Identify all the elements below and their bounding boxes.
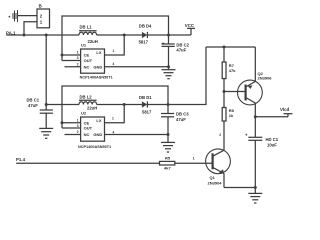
wire feedback U2: OUT/CE up and over to VCC2 node	[62, 86, 168, 128]
wire VCC node to VCC symbol	[169, 34, 192, 36]
svg-text:U1: U1	[81, 42, 87, 47]
svg-text:3: 3	[77, 56, 79, 60]
svg-text:4: 4	[113, 130, 115, 134]
svg-text:4: 4	[113, 62, 115, 66]
battery BT1	[8, 10, 18, 22]
diode DB D1	[139, 95, 152, 115]
svg-text:2: 2	[219, 133, 221, 137]
svg-text:DB D1: DB D1	[139, 95, 152, 100]
resistor R8	[222, 92, 234, 151]
wire CE pin stub U1	[62, 54, 81, 56]
capacitor DB C1	[27, 97, 53, 128]
junction input node second converter	[45, 103, 48, 106]
junction Vlcd output node	[254, 115, 257, 118]
svg-text:47uF: 47uF	[176, 117, 186, 122]
svg-text:1: 1	[77, 51, 79, 55]
junction VCC2 output node	[167, 103, 170, 106]
wire connector pin1 down to PA.1 rail	[24, 22, 37, 35]
svg-text:2N3904: 2N3904	[208, 180, 223, 185]
svg-text:DB C2: DB C2	[176, 42, 189, 47]
svg-text:3: 3	[77, 124, 79, 128]
svg-text:DB L2: DB L2	[80, 95, 93, 100]
supply symbol VCC	[185, 23, 195, 35]
junction ground node 2	[167, 133, 170, 136]
svg-text:47uF: 47uF	[176, 48, 186, 53]
svg-text:+: +	[245, 132, 248, 137]
wire output node to Vlcd terminal	[255, 116, 288, 118]
junction LX2 branch	[123, 103, 126, 106]
junction VCC output node	[167, 34, 170, 37]
svg-text:OUT: OUT	[84, 58, 93, 63]
wire node A to Q2 base	[224, 91, 245, 93]
wire rail down to second converter input	[45, 35, 47, 105]
junction LX1 branch	[123, 34, 126, 37]
wire inductor L2 to diode D1	[97, 104, 142, 106]
wire inductor L1 to diode D4	[97, 34, 142, 36]
svg-text:1k: 1k	[229, 113, 234, 118]
svg-text:47k: 47k	[229, 68, 236, 73]
svg-text:NCP1400ASN50T1: NCP1400ASN50T1	[80, 75, 113, 79]
ground C1	[39, 128, 53, 138]
svg-text:HD C1: HD C1	[266, 137, 279, 142]
wire R5 to Q1 base	[175, 162, 213, 164]
svg-text:R5: R5	[165, 155, 171, 160]
wire battery to connector pin 2	[18, 15, 38, 17]
wire OUT pin stub U1	[62, 60, 81, 62]
wire NC pin stub U2	[65, 134, 81, 136]
svg-text:1: 1	[77, 118, 79, 122]
junction CE U2	[61, 121, 64, 124]
junction C1 branch on rail	[45, 34, 48, 37]
svg-text:CE: CE	[84, 120, 90, 125]
transistor Q1 (NPN 2N3904)	[206, 149, 231, 188]
wire P1.4 to R5	[16, 162, 159, 164]
diode DB D4	[139, 23, 152, 44]
wire GND1 pin to ground	[105, 66, 169, 68]
svg-text:DB C3: DB C3	[176, 112, 189, 117]
svg-text:LX: LX	[96, 118, 101, 123]
svg-text:22uH: 22uH	[88, 39, 98, 44]
op-amp U1 (NCP1400A boost regulator)	[77, 42, 113, 79]
ground 2	[161, 135, 175, 153]
svg-text:22uH: 22uH	[87, 106, 97, 111]
svg-text:Vlcd: Vlcd	[280, 107, 290, 112]
wire LX2 pin to switch node	[105, 105, 125, 123]
svg-text:5817: 5817	[142, 110, 152, 115]
ground 4	[248, 188, 262, 204]
capacitor DB C2	[162, 35, 190, 67]
svg-text:VCC: VCC	[185, 23, 195, 28]
capacitor DB C3	[161, 105, 189, 135]
inductor DB L1	[79, 25, 98, 44]
wire diode D1 to VCC2 node	[147, 104, 168, 106]
junction ground node 1	[167, 65, 170, 68]
capacitor HD C1	[245, 117, 279, 188]
svg-text:1: 1	[113, 49, 115, 53]
svg-text:2: 2	[77, 130, 79, 134]
wire NC pin stub U1	[65, 66, 81, 68]
connector B	[37, 4, 50, 28]
svg-text:2N3906: 2N3906	[258, 76, 273, 81]
wire transistor VCC2 top rail	[206, 46, 255, 48]
svg-text:2: 2	[40, 13, 43, 18]
svg-text:47uF: 47uF	[28, 103, 38, 108]
svg-text:B: B	[39, 4, 42, 9]
wire VCC2 node right and up to transistor rail	[168, 47, 206, 105]
svg-text:GND: GND	[93, 132, 102, 137]
transistor Q2 (PNP 2N3906)	[238, 47, 273, 117]
wire OUT pin stub U2	[62, 127, 81, 129]
svg-text:5817: 5817	[139, 39, 149, 44]
svg-text:P1.4: P1.4	[16, 157, 26, 162]
svg-text:OUT: OUT	[84, 126, 93, 131]
svg-text:1: 1	[40, 20, 43, 25]
svg-text:DB L1: DB L1	[80, 25, 93, 30]
svg-text:GND: GND	[93, 64, 102, 69]
svg-text:10uF: 10uF	[267, 143, 277, 148]
ground 1	[162, 67, 176, 79]
svg-text:1: 1	[193, 157, 195, 161]
svg-text:NC: NC	[84, 132, 90, 137]
wire diode D4 to VCC node	[147, 34, 168, 36]
junction connector pin1 on rail	[23, 34, 26, 37]
svg-text:LX: LX	[96, 50, 101, 55]
svg-text:U2: U2	[81, 110, 87, 115]
junction node A base Q2	[223, 90, 226, 93]
junction ground node 4	[254, 186, 257, 189]
wire CE pin stub U2	[62, 122, 81, 124]
wire Q1 emitter to ground node	[224, 187, 255, 189]
svg-text:Q1: Q1	[210, 175, 216, 180]
svg-text:NC: NC	[84, 64, 90, 69]
supply symbol Vlcd	[280, 107, 293, 117]
svg-text:1: 1	[112, 116, 114, 120]
svg-text:DB C1: DB C1	[27, 97, 40, 102]
svg-text:DB D4: DB D4	[139, 23, 152, 28]
wire second converter input rail	[46, 104, 79, 106]
junction R7 top on rail	[223, 46, 226, 49]
svg-text:NCP1400ASN50T1: NCP1400ASN50T1	[78, 145, 111, 149]
junction CE U1	[61, 54, 64, 57]
svg-text:4k7: 4k7	[164, 165, 171, 170]
op-amp U2 (NCP1400A boost regulator)	[77, 110, 111, 149]
wire LX1 pin to switch node	[105, 35, 125, 55]
wire GND2 pin to ground	[105, 134, 169, 136]
resistor R5	[160, 155, 175, 170]
wire PA.1 input rail	[6, 34, 79, 36]
inductor DB L2	[79, 95, 97, 111]
svg-text:2: 2	[77, 62, 79, 66]
svg-text:CE: CE	[84, 53, 90, 58]
wire feedback U1: OUT/CE up and over to VCC node	[62, 16, 169, 61]
svg-text:+: +	[8, 15, 11, 20]
resistor R7	[222, 47, 236, 92]
